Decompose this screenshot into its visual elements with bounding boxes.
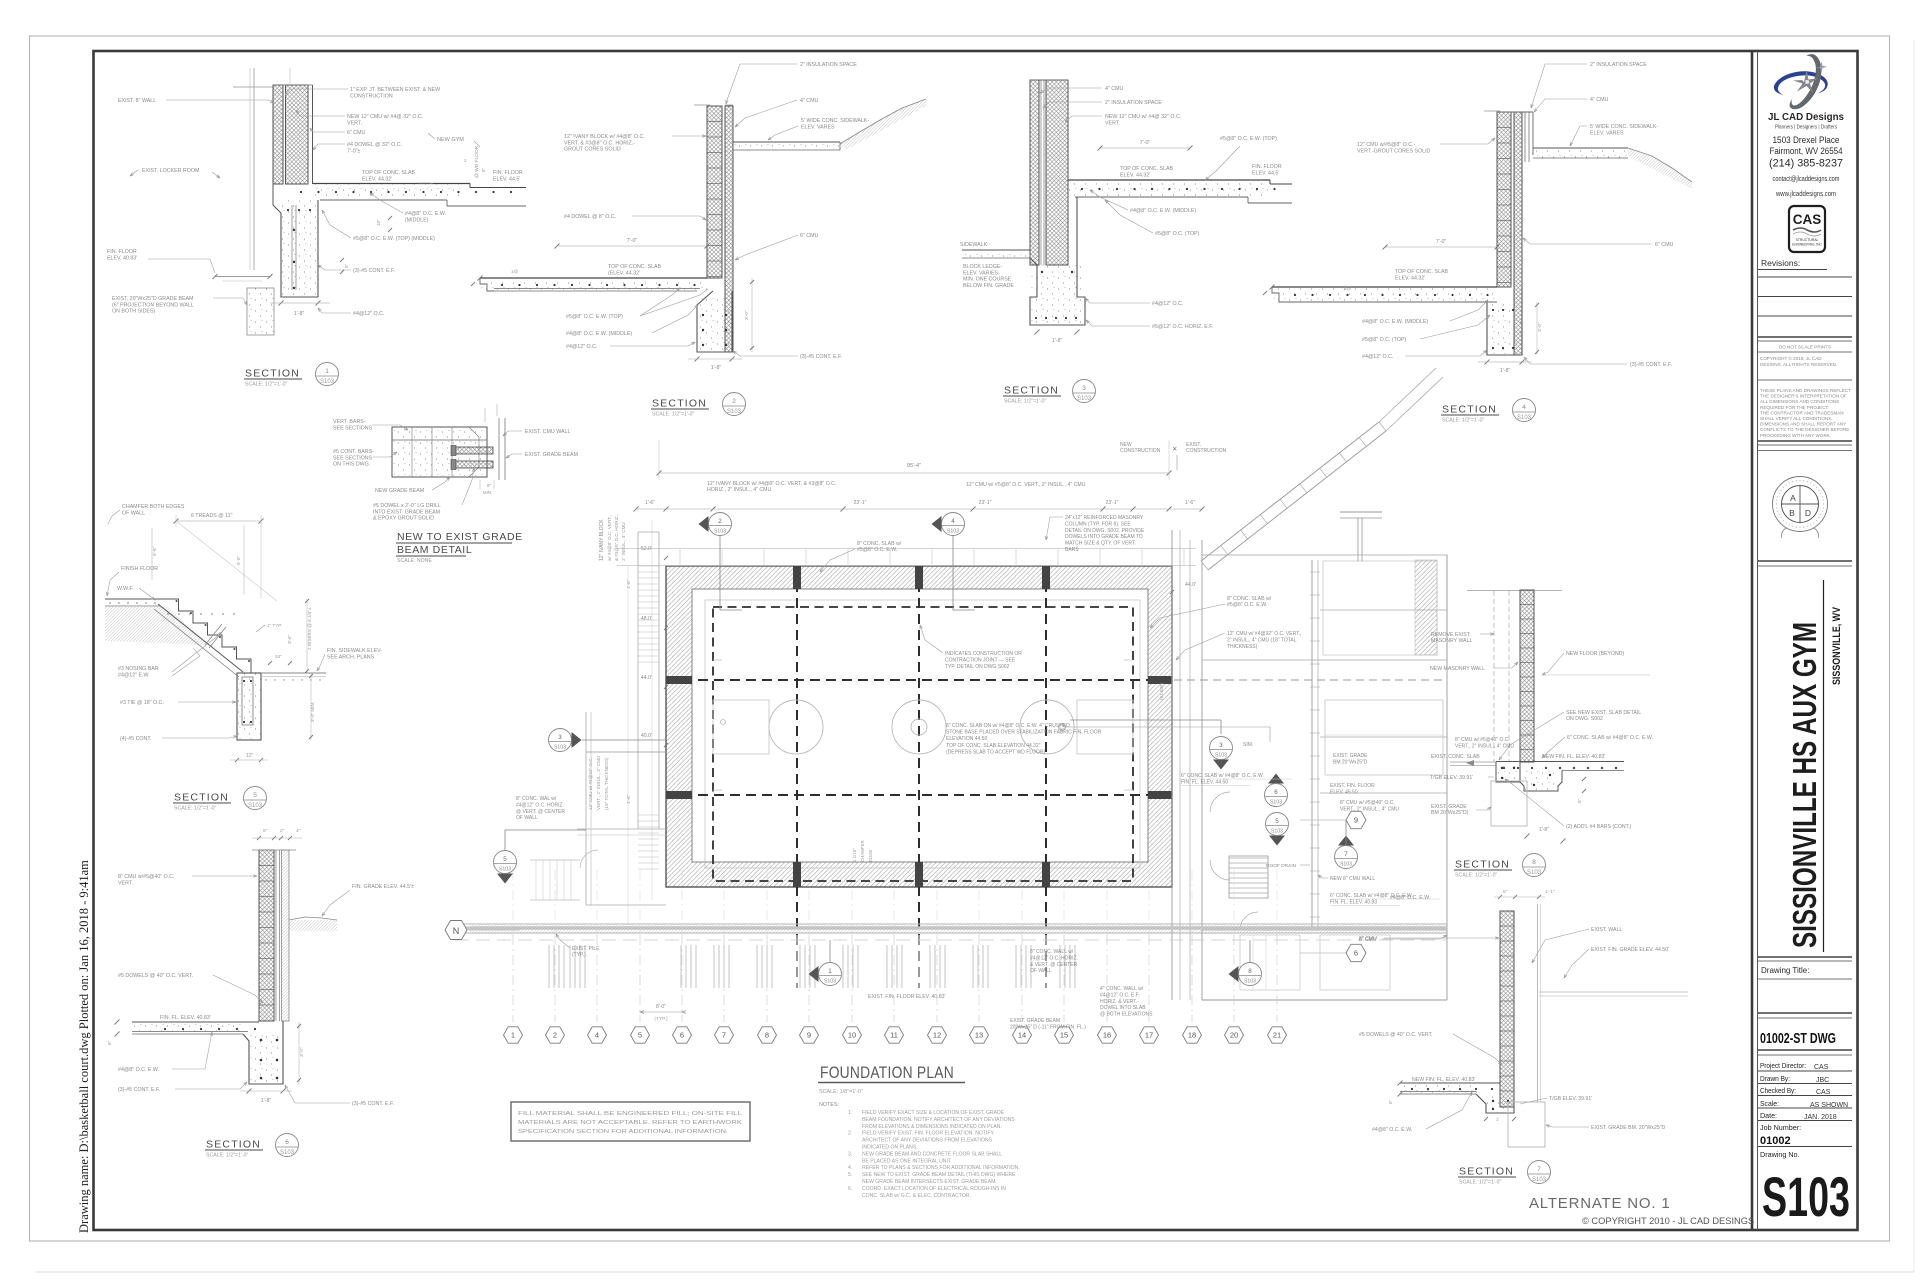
svg-text:MATERIALS ARE NOT ACCEPTABLE.: MATERIALS ARE NOT ACCEPTABLE. REFER TO E… (518, 1120, 743, 1126)
section 1: existing CMU wall crosshatch (273, 85, 283, 184)
grid line 13 (978, 935, 980, 1022)
plan: existing canopy band above top wall (617, 548, 1196, 550)
svg-text:(TYP.): (TYP.) (654, 1016, 668, 1022)
svg-text:6": 6" (1577, 798, 1582, 803)
cut marker 2 (699, 516, 709, 532)
svg-text:#5@8" O.C. E.W.: #5@8" O.C. E.W. (857, 547, 897, 553)
stair detail: upper floor slab (105, 598, 164, 600)
svg-text:8'-0": 8'-0" (656, 1004, 666, 1010)
grid bubble 12 (928, 1027, 947, 1043)
plan: right annex stair (1229, 857, 1268, 859)
svg-text:6: 6 (1274, 789, 1278, 796)
svg-text:BE PLACED AS ONE INTEGRAL UNIT: BE PLACED AS ONE INTEGRAL UNIT. (862, 1158, 952, 1164)
svg-text:(MIDDLE): (MIDDLE) (405, 217, 429, 223)
grid line 11 (893, 935, 895, 1022)
svg-text:FIN. FL. ELEV. 44.50: FIN. FL. ELEV. 44.50 (1181, 779, 1228, 785)
stair detail: last riser (251, 660, 261, 673)
svg-text:#4@8" O.C. E.W. (MIDDLE): #4@8" O.C. E.W. (MIDDLE) (1130, 208, 1196, 214)
svg-text:8" CONC. WALL w/: 8" CONC. WALL w/ (1030, 949, 1074, 955)
svg-text:ELEV. 44.5': ELEV. 44.5' (1252, 170, 1279, 176)
svg-text:5: 5 (1275, 818, 1279, 825)
svg-text:SEE NEW TO EXIST. GRADE BEAM D: SEE NEW TO EXIST. GRADE BEAM DETAIL (THI… (862, 1172, 1016, 1178)
svg-text:1503 Drexel Place: 1503 Drexel Place (1773, 135, 1840, 146)
svg-text:7: 7 (1344, 851, 1348, 858)
svg-text:12" IVANY BLOCK w/ #4@8" O.C.: 12" IVANY BLOCK w/ #4@8" O.C. (564, 134, 645, 140)
svg-text:1'-6": 1'-6" (626, 794, 632, 804)
svg-text:11: 11 (890, 1031, 898, 1040)
svg-text:ARCHITECT OF ANY DEVIATIONS FR: ARCHITECT OF ANY DEVIATIONS FROM ELEVATI… (862, 1138, 993, 1144)
svg-text:EXIST. GRADE BM. 20"Wx25"D: EXIST. GRADE BM. 20"Wx25"D (1591, 1125, 1666, 1131)
svg-text:1@: 1@ (1344, 286, 1352, 291)
svg-text:CONFLICTS TO THE DESIGNER BEFO: CONFLICTS TO THE DESIGNER BEFORE (1760, 427, 1849, 432)
svg-text:N: N (453, 926, 460, 936)
svg-text:FROM ELEVATIONS & DIMENSIONS I: FROM ELEVATIONS & DIMENSIONS INDICATED O… (862, 1124, 1002, 1130)
svg-text:Scale:: Scale: (1760, 1099, 1779, 1108)
svg-text:13: 13 (975, 1031, 983, 1040)
svg-text:SEE NEW EXIST. SLAB DETAIL: SEE NEW EXIST. SLAB DETAIL (1566, 710, 1641, 716)
svg-text:(6" PROJECTION BEYOND WALL: (6" PROJECTION BEYOND WALL (112, 302, 194, 308)
svg-text:2" INSULATION SPACE: 2" INSULATION SPACE (1105, 100, 1162, 106)
svg-text:2" INSULATION SPACE: 2" INSULATION SPACE (1590, 62, 1647, 68)
svg-text:SECTION: SECTION (1442, 404, 1497, 416)
svg-text:DETAIL ON DWG. S002. PROVIDE: DETAIL ON DWG. S002. PROVIDE (1065, 528, 1145, 534)
svg-text:9: 9 (1354, 816, 1358, 825)
section 1: existing wall line (253, 68, 255, 270)
svg-text:Fairmont, WV 26554: Fairmont, WV 26554 (1770, 146, 1843, 157)
svg-text:5: 5 (503, 856, 507, 863)
svg-text:ELEV. VARES: ELEV. VARES (801, 124, 835, 130)
svg-text:TOP OF CONC. SLAB: TOP OF CONC. SLAB (608, 264, 662, 270)
plan: bottom lower band (existing bldg) (455, 923, 1447, 925)
svg-text:1.: 1. (848, 1110, 852, 1116)
svg-text:(61.50#): (61.50#) (1159, 682, 1164, 700)
grid line 7 (723, 935, 725, 1022)
page edge shadow (36, 1271, 1914, 1273)
plan: diagonal ramp to upper right (1201, 422, 1379, 561)
svg-text:FIELD VERIFY EXIST. FIN. FLOOR: FIELD VERIFY EXIST. FIN. FLOOR ELEVATION… (862, 1131, 994, 1137)
plan: tee column top right (1340, 511, 1382, 513)
svg-text:23'-1": 23'-1" (1106, 500, 1119, 506)
svg-text:⌣: ⌣ (1798, 529, 1802, 535)
svg-text:8: 8 (1532, 859, 1536, 866)
svg-text:12" CMU w/ #4@32" O.C. VERT.,: 12" CMU w/ #4@32" O.C. VERT., (1227, 631, 1301, 637)
section 3: wall footing (1030, 240, 1037, 265)
svg-text:VERT.: VERT. (347, 120, 362, 126)
section 8: exist grade beam outline (1491, 781, 1527, 826)
svg-text:ELEV. 40.83': ELEV. 40.83' (107, 255, 137, 261)
svg-text:6" CMU: 6" CMU (347, 130, 366, 136)
svg-text:#4 DOWEL @ 32" O.C.: #4 DOWEL @ 32" O.C. (347, 142, 402, 148)
svg-text:3: 3 (1082, 385, 1086, 392)
svg-text:THICKNESS): THICKNESS) (1227, 644, 1258, 650)
svg-text:#5 DOWEL x 2'-0" LG DRILL: #5 DOWEL x 2'-0" LG DRILL (373, 503, 441, 509)
svg-text:8: 8 (1248, 968, 1252, 975)
svg-text:S103: S103 (1517, 415, 1532, 421)
section 6: CMU wall ladder (259, 850, 274, 1021)
svg-text:6" CONC. SLAB ON w/ #4@8" O.C.: 6" CONC. SLAB ON w/ #4@8" O.C. E.W. 4" C… (946, 723, 1070, 729)
cut marker 5 right (1269, 836, 1285, 846)
svg-text:MIN. ONE COURSE: MIN. ONE COURSE (963, 277, 1012, 283)
svg-text:S103: S103 (1077, 396, 1092, 402)
svg-text:CHAMFER: CHAMFER (860, 840, 865, 862)
grid line 17 (1148, 935, 1150, 1022)
svg-text:#4@12" O.C.: #4@12" O.C. (1152, 301, 1183, 307)
svg-text:6": 6" (481, 167, 486, 172)
row bubble 9 (1346, 811, 1366, 828)
svg-text:SEE ARCH. PLANS: SEE ARCH. PLANS (327, 654, 375, 660)
svg-text:SECTION: SECTION (206, 1139, 261, 1151)
svg-text:4: 4 (951, 518, 955, 525)
svg-text:TOP OF CONC. SLAB: TOP OF CONC. SLAB (1120, 166, 1174, 172)
svg-text:12" CMU w/ #5@8" O.C. VERT., 2: 12" CMU w/ #5@8" O.C. VERT., 2" INSUL., … (966, 482, 1086, 488)
svg-text:SHALL VERIFY ALL CONDITIONS,: SHALL VERIFY ALL CONDITIONS, (1760, 416, 1833, 421)
svg-text:& VERT. @ CENTER: & VERT. @ CENTER (1030, 962, 1078, 968)
svg-text:(DEPRESS SLAB TO ACCEPT WD FLO: (DEPRESS SLAB TO ACCEPT WD FLOOR) (946, 749, 1046, 755)
fill material box (511, 1102, 750, 1141)
svg-text:6": 6" (107, 1040, 113, 1045)
svg-text:(3)-#5 CONT. E.F.: (3)-#5 CONT. E.F. (800, 354, 842, 360)
svg-text:8" CMU w/ #5@40" O.C.: 8" CMU w/ #5@40" O.C. (1340, 800, 1395, 806)
svg-text:#4@12" O.C. HORIZ.: #4@12" O.C. HORIZ. (516, 802, 564, 808)
grid bubble 5 (631, 1027, 650, 1043)
cut marker 8 bottom (1229, 966, 1239, 982)
svg-text:ENGINEERING, INC: ENGINEERING, INC (1792, 243, 1822, 247)
svg-text:CAS: CAS (1814, 1064, 1829, 1071)
grid bubble 20 (1225, 1027, 1244, 1043)
svg-text:Planners | Designers | Drafter: Planners | Designers | Drafters (1775, 125, 1837, 131)
section 8: exist slab (1450, 761, 1496, 763)
section 2: footing (697, 291, 732, 352)
double line below stamp (1758, 560, 1852, 562)
svg-text:1'-8": 1'-8" (261, 1098, 272, 1104)
section 7: exist grade beam outline (1508, 1102, 1545, 1147)
svg-text:#5 CONT. BARS-: #5 CONT. BARS- (333, 449, 374, 455)
svg-text:52.0': 52.0' (641, 546, 652, 552)
svg-text:NEW 8" CMU WALL: NEW 8" CMU WALL (1330, 876, 1375, 882)
svg-text:VERT. & #3@8" O.C. HORIZ.-: VERT. & #3@8" O.C. HORIZ.- (564, 140, 635, 146)
svg-text:20"Wx25" D (-11" FROM FIN. FL.: 20"Wx25" D (-11" FROM FIN. FL.) (1010, 1024, 1086, 1030)
svg-text:1'-8": 1'-8" (711, 365, 722, 371)
svg-text:EXIST. WALL: EXIST. WALL (1591, 927, 1622, 933)
svg-text:VERT., 2" INSUL., 4" CMU: VERT., 2" INSUL., 4" CMU (596, 756, 601, 810)
svg-text:© COPYRIGHT 2010 - JL CAD DESI: © COPYRIGHT 2010 - JL CAD DESINGS (1582, 1216, 1754, 1226)
svg-text:7: 7 (722, 1031, 726, 1040)
svg-text:VERT.: VERT. (1105, 120, 1120, 126)
svg-text:FOUNDATION PLAN: FOUNDATION PLAN (820, 1063, 954, 1082)
grid bubble 2 (546, 1027, 565, 1043)
grid line 21 (1276, 935, 1278, 1022)
svg-text:12" IVANY BLOCK w/ #4@8" O.C.: 12" IVANY BLOCK w/ #4@8" O.C. VERT. & #3… (707, 481, 836, 487)
svg-text:3'-0": 3'-0" (1537, 322, 1543, 332)
drawing title rows (1758, 956, 1852, 958)
svg-text:#4@12" O.C.: #4@12" O.C. (353, 311, 384, 317)
plan: right annex mid block (1325, 700, 1443, 775)
cut marker 3 left (572, 732, 582, 748)
svg-text:JL CAD Designs: JL CAD Designs (1768, 111, 1844, 123)
svg-text:& EPOXY GROUT SOLID: & EPOXY GROUT SOLID (373, 516, 434, 522)
cut marker 4 (932, 516, 942, 532)
grid bubble 8 (758, 1027, 777, 1043)
svg-text:40.0': 40.0' (641, 733, 652, 739)
svg-text:SISSONVILLE, WV: SISSONVILLE, WV (1831, 606, 1843, 685)
grid line 16 (1106, 935, 1108, 1022)
svg-text:HORIZ. & VERT.-: HORIZ. & VERT.- (1100, 999, 1139, 1005)
grid line 14 (1021, 935, 1023, 1022)
svg-text:@ BOTH ELEVATIONS: @ BOTH ELEVATIONS (1100, 1012, 1153, 1018)
svg-text:REFER TO PLANS & SECTIONS FOR: REFER TO PLANS & SECTIONS FOR ADDITIONAL… (862, 1165, 1020, 1171)
svg-text:#4@12" E.W.: #4@12" E.W. (118, 672, 150, 678)
section 7: footing (1476, 1094, 1514, 1113)
svg-text:3.: 3. (848, 1151, 852, 1157)
svg-text:2: 2 (718, 518, 722, 525)
svg-text:SCALE: NONE: SCALE: NONE (397, 558, 432, 564)
svg-text:8": 8" (263, 828, 268, 834)
svg-text:JBC: JBC (1816, 1077, 1829, 1084)
svg-text:EDGE: EDGE (868, 849, 873, 862)
svg-text:OF WALL: OF WALL (1030, 968, 1052, 974)
svg-text:DESIGNS. ALL RIGHTS RESERVED.: DESIGNS. ALL RIGHTS RESERVED. (1760, 362, 1837, 367)
svg-text:ELEV. 44.5': ELEV. 44.5' (493, 176, 520, 182)
svg-text:THE DESIGNER'S INTERPRETATION: THE DESIGNER'S INTERPRETATION OF (1760, 394, 1847, 399)
svg-text:14: 14 (1018, 1031, 1026, 1040)
svg-text:EXIST. GRADE: EXIST. GRADE (1333, 753, 1368, 759)
grid bubble 9 (800, 1027, 819, 1043)
svg-text:@ VERT. @ CENTER: @ VERT. @ CENTER (516, 809, 565, 815)
grid bubble 4 (588, 1027, 607, 1043)
svg-text:12": 12" (246, 753, 254, 759)
svg-text:A: A (1790, 493, 1796, 503)
svg-text:FIN. FLOOR: FIN. FLOOR (1252, 164, 1282, 170)
svg-text:48.0': 48.0' (641, 616, 652, 622)
svg-text:(3)-#5 CONT. E.F.: (3)-#5 CONT. E.F. (118, 1087, 160, 1093)
svg-text:8" CONC. SLAB w/: 8" CONC. SLAB w/ (857, 541, 902, 547)
svg-text:6": 6" (344, 263, 349, 268)
svg-text:2 RISERS @ 6 1/4"±: 2 RISERS @ 6 1/4"± (307, 607, 312, 650)
svg-text:FINISH FLOOR: FINISH FLOOR (121, 566, 158, 572)
svg-text:S103: S103 (1340, 862, 1352, 868)
svg-text:W.W.F.: W.W.F. (117, 586, 133, 592)
plan: bottom left stair lines (530, 859, 580, 861)
svg-text:(18" TOTAL THICKNESS): (18" TOTAL THICKNESS) (604, 757, 609, 810)
svg-text:2 1/16": 2 1/16" (852, 848, 857, 862)
plan: second dim line (636, 508, 1202, 510)
svg-text:4: 4 (595, 1031, 599, 1040)
svg-text:VERT.: VERT. (118, 880, 133, 886)
grid bubble 7 (715, 1027, 734, 1043)
svg-text:SECTION: SECTION (1004, 385, 1059, 397)
foundation plan: slab edge line (705, 600, 1140, 868)
grade beam detail: vertical ref lines (484, 408, 486, 422)
svg-text:ELEVATION 44.50: ELEVATION 44.50 (946, 736, 987, 742)
svg-text:SCALE: 1/2"=1'-0": SCALE: 1/2"=1'-0" (1004, 399, 1046, 405)
svg-text:8" CONC. WAL w/: 8" CONC. WAL w/ (516, 796, 557, 802)
svg-text:w/ #4@8" O.C. VERT.,: w/ #4@8" O.C. VERT., (607, 515, 612, 561)
svg-text:SECTION: SECTION (245, 368, 300, 380)
svg-text:#5@12" O.C. HORIZ. E.F.: #5@12" O.C. HORIZ. E.F. (1152, 324, 1213, 330)
svg-text:S103: S103 (1762, 1165, 1850, 1228)
stair detail: stair slab underside (158, 604, 243, 672)
plan: right corridor lines (1171, 530, 1173, 1000)
svg-text:1'-8": 1'-8" (294, 311, 305, 317)
svg-text:#4@12" O.C.: #4@12" O.C. (566, 344, 597, 350)
row bubble 6 (1346, 944, 1366, 961)
svg-text:#4@8" O.C. E.W.: #4@8" O.C. E.W. (1390, 895, 1430, 901)
svg-text:BELOW FIN. GRADE: BELOW FIN. GRADE (963, 283, 1014, 289)
plan: pile clusters (548, 945, 550, 988)
section 6: slab (132, 1021, 259, 1023)
svg-text:5'-6": 5'-6" (236, 555, 241, 565)
grade beam detail: beam section (392, 427, 487, 477)
svg-text:PROCEEDING WITH ANY WORK.: PROCEEDING WITH ANY WORK. (1760, 433, 1831, 438)
grid bubble 15 (1055, 1027, 1074, 1043)
svg-text:#4@8" O.C. E.W. (MIDDLE): #4@8" O.C. E.W. (MIDDLE) (1362, 319, 1428, 325)
section 1: new 12in CMU wall crosshatch (286, 85, 309, 184)
svg-text:S103: S103 (1244, 979, 1256, 985)
svg-text:EXIST. FIN. GRADE ELEV. 44.50': EXIST. FIN. GRADE ELEV. 44.50' (1591, 947, 1669, 953)
svg-text:B: B (1789, 508, 1795, 518)
svg-text:BM 20"Wx25"D): BM 20"Wx25"D) (1431, 810, 1469, 816)
svg-text:5'-6": 5'-6" (152, 546, 158, 556)
svg-text:SEE SECTIONS: SEE SECTIONS (333, 425, 373, 431)
title block divider (1751, 51, 1754, 1230)
foundation plan: pilasters (793, 566, 801, 589)
svg-text:6" CONC. SLAB w/ #4@8" O.C. E.: 6" CONC. SLAB w/ #4@8" O.C. E.W. (1567, 735, 1653, 741)
svg-text:1'-6": 1'-6" (1185, 500, 1195, 506)
svg-text:2.: 2. (848, 1131, 852, 1137)
svg-text:VERT., 2" INSUL., 4" CMU: VERT., 2" INSUL., 4" CMU (1340, 806, 1399, 812)
svg-text:@ WD FLOOR: @ WD FLOOR (474, 145, 480, 178)
svg-text:CONSTRUCTION: CONSTRUCTION (1186, 448, 1227, 454)
svg-text:STONE BASE PLACED OVER STABILI: STONE BASE PLACED OVER STABILIZATION FAB… (946, 730, 1102, 736)
section 1: wall footing / grade beam (273, 184, 281, 213)
svg-text:ALL DIMENSIONS AND CONDITIONS: ALL DIMENSIONS AND CONDITIONS (1760, 399, 1839, 404)
svg-text:8": 8" (487, 483, 492, 489)
svg-text:FIN. FLOOR: FIN. FLOOR (493, 170, 523, 176)
section 1: slab rebar dots (300, 191, 302, 193)
svg-text:THE CONTRACTOR AND TRADESMAN: THE CONTRACTOR AND TRADESMAN (1760, 410, 1844, 415)
section 7: exist wall lines (1537, 904, 1539, 1102)
svg-text:ELEV. VARIES-: ELEV. VARIES- (963, 270, 1000, 276)
svg-text:2: 2 (553, 1031, 557, 1040)
svg-text:VERT.-GROUT CORES SOLID: VERT.-GROUT CORES SOLID (1357, 148, 1431, 154)
svg-text:1" EXP. JT. BETWEEN EXIST. & N: 1" EXP. JT. BETWEEN EXIST. & NEW (350, 87, 440, 93)
svg-text:DOWEL INTO SLAB: DOWEL INTO SLAB (1100, 1005, 1146, 1011)
grid line 15 (1063, 935, 1065, 1022)
svg-text:#5@8" O.C. E.W. (TOP): #5@8" O.C. E.W. (TOP) (566, 314, 623, 320)
svg-text:MASONRY WALL: MASONRY WALL (1431, 638, 1473, 644)
svg-text:#5 DOWELS @ 40" O.C. VERT.: #5 DOWELS @ 40" O.C. VERT. (118, 973, 193, 979)
svg-text:7'-0": 7'-0" (1436, 239, 1447, 245)
svg-text:1'-8": 1'-8" (1052, 338, 1063, 344)
svg-text:6" CMU: 6" CMU (1655, 242, 1674, 248)
svg-text:FIN. FL. ELEV. 40.83: FIN. FL. ELEV. 40.83 (1330, 899, 1377, 905)
svg-text:FIELD VERIFY EXACT SIZE & LOCA: FIELD VERIFY EXACT SIZE & LOCATION OF EX… (862, 1110, 1005, 1116)
svg-text:REQUIRED FOR THE PROJECT.: REQUIRED FOR THE PROJECT. (1760, 405, 1829, 410)
grid line 5 (639, 935, 641, 1022)
svg-text:S103: S103 (824, 979, 836, 985)
svg-text:FIN. SIDEWALK ELEV-: FIN. SIDEWALK ELEV- (327, 648, 382, 654)
foundation plan: court dashed outline (713, 607, 1133, 881)
svg-text:S103: S103 (714, 529, 726, 535)
svg-text:(TYP.): (TYP.) (572, 952, 586, 958)
plan: left wing stair strip (637, 532, 639, 829)
cut marker 1 bottom (809, 966, 819, 982)
section 6: ground grade right (289, 917, 337, 920)
svg-text:S103: S103 (320, 379, 335, 385)
plan: right annex rooms (1311, 560, 1313, 930)
svg-text:12: 12 (933, 1031, 941, 1040)
svg-text:DOWELS INTO GRADE BEAM TO: DOWELS INTO GRADE BEAM TO (1065, 534, 1143, 540)
foundation plan: grade beam grid dashed lines horizontal (666, 679, 1148, 681)
grid line 12 (936, 935, 938, 1022)
svg-text:FIN. FLOOR: FIN. FLOOR (107, 249, 137, 255)
section 1: existing grade beam pad (247, 288, 274, 335)
svg-text:CONSTRUCTION: CONSTRUCTION (350, 93, 393, 99)
section 4: CMU wall (1497, 112, 1511, 287)
section 2: footing dim (695, 357, 700, 362)
stair detail: steps (164, 599, 251, 671)
svg-text:3'-0": 3'-0" (299, 1047, 305, 1057)
svg-text:#3 NOSING BAR: #3 NOSING BAR (118, 666, 159, 672)
svg-text:#4@8" O.C. E.W.: #4@8" O.C. E.W. (405, 211, 446, 217)
svg-text:COPYRIGHT © 2018, JL CAD: COPYRIGHT © 2018, JL CAD (1760, 355, 1822, 361)
section 6: footing (243, 1021, 283, 1084)
svg-text:3'-6": 3'-6" (287, 634, 292, 644)
svg-text:ON BOTH SIDES): ON BOTH SIDES) (112, 309, 155, 315)
grid bubble 1 (504, 1027, 523, 1043)
svg-text:16: 16 (1103, 1031, 1111, 1040)
plan: left wing floor edge (577, 828, 668, 830)
svg-text:1'-6": 1'-6" (645, 500, 655, 506)
svg-text:COLUMN (TYP. FOR 6). SEE: COLUMN (TYP. FOR 6). SEE (1065, 521, 1131, 527)
svg-text:SECTION: SECTION (1455, 859, 1510, 871)
svg-text:SCALE: 1/2"=1'-0": SCALE: 1/2"=1'-0" (206, 1153, 248, 1159)
svg-text:BLOCK LEDGE-: BLOCK LEDGE- (963, 264, 1002, 270)
svg-text:NOTES:: NOTES: (819, 1102, 839, 1108)
svg-text:(2) ADD'L #4 BARS (CONT.): (2) ADD'L #4 BARS (CONT.) (1566, 824, 1632, 830)
svg-text:S103: S103 (727, 409, 742, 415)
section 7: slab (1400, 1082, 1500, 1084)
svg-text:SCALE: 1/2"=1'-0": SCALE: 1/2"=1'-0" (652, 412, 694, 418)
svg-text:CHAMFER BOTH EDGES: CHAMFER BOTH EDGES (122, 504, 185, 510)
plan: left wing door arc (580, 850, 598, 868)
section 1: 6in CMU line (307, 85, 309, 184)
svg-text:5' WIDE CONC. SIDEWALK-: 5' WIDE CONC. SIDEWALK- (801, 118, 869, 124)
svg-text:FIN. GRADE ELEV. 44.5'±: FIN. GRADE ELEV. 44.5'± (352, 884, 414, 890)
svg-text:S103: S103 (1270, 800, 1282, 806)
svg-text:24": 24" (275, 654, 282, 660)
svg-text:EXIST. 20"Wx25"D GRADE BEAM: EXIST. 20"Wx25"D GRADE BEAM (112, 296, 193, 302)
svg-text:BM 20"Wx25"D: BM 20"Wx25"D (1333, 759, 1368, 765)
svg-text:Date:: Date: (1760, 1111, 1777, 1120)
svg-text:7'-0": 7'-0" (1140, 140, 1151, 146)
svg-text:NEW GRADE BEAM: NEW GRADE BEAM (375, 488, 424, 494)
svg-text:(3)-#5 CONT. E.F.: (3)-#5 CONT. E.F. (1630, 362, 1672, 368)
svg-text:3: 3 (558, 734, 562, 741)
svg-text:12" CMU w/#5@8" O.C.-: 12" CMU w/#5@8" O.C.- (1357, 142, 1416, 148)
svg-text:8" CONC. SLAB w/: 8" CONC. SLAB w/ (1227, 596, 1272, 602)
foundation plan: inner wall face (692, 589, 1148, 862)
svg-text:5: 5 (253, 792, 257, 799)
svg-text:OF WALL: OF WALL (122, 510, 145, 516)
svg-text:TOP OF CONC. SLAB: TOP OF CONC. SLAB (1395, 269, 1449, 275)
foundation plan: wall band hatch (666, 566, 1172, 887)
plan: left lower wall lines (585, 712, 587, 905)
svg-text:contact@jlcaddesigns.com: contact@jlcaddesigns.com (1773, 176, 1840, 183)
stair detail: break marks (205, 624, 222, 645)
svg-text:7'-0": 7'-0" (627, 238, 638, 244)
svg-text:#5@8" O.C. E.W. (TOP): #5@8" O.C. E.W. (TOP) (1220, 136, 1277, 142)
